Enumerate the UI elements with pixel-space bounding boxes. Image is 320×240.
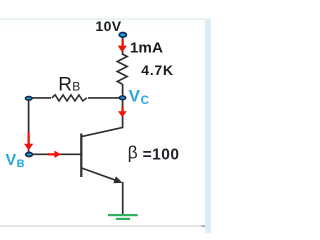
svg-text:B: B xyxy=(17,158,25,170)
resistor RB zigzag xyxy=(52,95,87,101)
svg-text:β: β xyxy=(128,143,138,163)
svg-text:V: V xyxy=(129,87,141,106)
svg-text:R: R xyxy=(58,74,72,95)
wire supply to resistor 4.7K xyxy=(122,37,124,55)
top separator line xyxy=(0,18,205,20)
wire emitter slant xyxy=(82,168,116,180)
node VB xyxy=(26,153,33,157)
wire emitter to ground xyxy=(122,182,124,215)
resistor 4.7K zigzag xyxy=(117,54,127,84)
transistor Q1 base bar xyxy=(80,134,82,178)
wire RB to left node xyxy=(31,97,51,99)
svg-text:4.7K: 4.7K xyxy=(141,62,174,78)
arrow base current down (red) xyxy=(24,132,33,150)
wire collector (slant + vertical to VC) xyxy=(82,99,123,137)
node left top xyxy=(25,97,32,100)
arrow into base (red, right) xyxy=(48,151,62,158)
svg-text:1mA: 1mA xyxy=(130,40,163,57)
wire resistor to node VC xyxy=(122,84,124,96)
bottom separator line xyxy=(0,225,205,227)
wire VB to base xyxy=(33,153,81,155)
svg-text:V: V xyxy=(6,152,17,169)
wire left vertical (node to VB) xyxy=(28,101,30,153)
node VC xyxy=(119,96,125,100)
wire VC to RB (right segment) xyxy=(88,97,120,99)
arrow collector current (red) xyxy=(118,107,127,118)
svg-text:C: C xyxy=(141,95,149,107)
emitter arrowhead xyxy=(113,176,122,183)
ground symbol xyxy=(108,214,138,216)
arrow 1mA current (red) xyxy=(118,39,127,52)
svg-text:10V: 10V xyxy=(95,18,121,34)
node supply terminal xyxy=(119,33,126,38)
svg-text:=100: =100 xyxy=(143,146,180,163)
right scrollbar band xyxy=(205,19,211,234)
svg-text:B: B xyxy=(72,80,80,94)
